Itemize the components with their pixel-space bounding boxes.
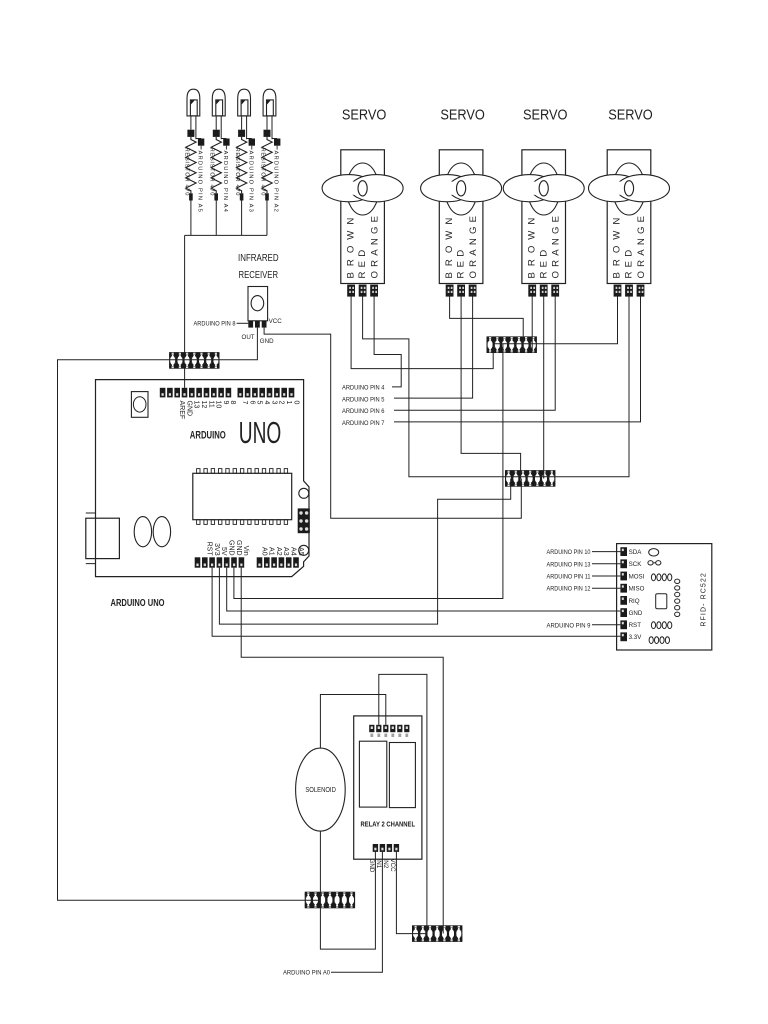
wire: pin8 label dash to receiver OUT [237, 322, 249, 324]
svg-text:SERVO: SERVO [342, 106, 387, 123]
resistor R1 470 [186, 137, 196, 193]
resistor R3 bottom terminal [240, 193, 244, 200]
svg-text:3: 3 [270, 401, 277, 405]
svg-text:RST: RST [629, 622, 642, 629]
svg-text:RFID- RC522: RFID- RC522 [700, 572, 707, 627]
RFID pin RIQ [620, 596, 627, 605]
LED D3 anode leg [246, 116, 248, 139]
mounting hole top [299, 488, 309, 498]
svg-text:GND: GND [260, 338, 274, 345]
svg-text:SERVO: SERVO [523, 106, 568, 123]
servo M3 horn [528, 163, 560, 215]
wire: pin9 label to RFID RST [592, 624, 620, 626]
wire: Arduino Vin to connector J5 [241, 568, 443, 934]
Arduino top digital header (AREF..8) [160, 388, 231, 398]
node label ARDUINO PIN A4 [225, 146, 227, 150]
receiver pin VCC [262, 321, 267, 328]
wire: pin10 label to RFID SDA [592, 551, 620, 553]
svg-text:RESISTOR 470: RESISTOR 470 [209, 148, 215, 197]
svg-text:SOLENOID: SOLENOID [305, 787, 336, 794]
infrared receiver U2 body [248, 287, 268, 321]
relay bottom header [373, 844, 399, 852]
svg-text:OUT: OUT [242, 334, 255, 341]
Arduino power header [195, 557, 245, 567]
svg-text:11: 11 [207, 401, 214, 408]
receiver pin OUT [248, 321, 253, 328]
svg-text:ARDUINO PIN A4: ARDUINO PIN A4 [222, 151, 228, 214]
servo M3 connector pins [528, 285, 559, 297]
svg-text:4: 4 [263, 401, 270, 405]
resistor R3 470 [236, 137, 246, 193]
servo M1 body [341, 150, 385, 284]
svg-text:ARDUINO PIN 9: ARDUINO PIN 9 [547, 622, 591, 629]
svg-text:SERVO: SERVO [608, 106, 653, 123]
connector block J5 (relay power bus) [412, 925, 462, 942]
svg-text:ARDUINO PIN 4: ARDUINO PIN 4 [342, 385, 385, 392]
capacitor C2 [153, 517, 170, 547]
wire: servo M3 orange to ARDUINO PIN 6 [394, 297, 555, 411]
wire: servo M4 red to connector J3 [555, 297, 629, 477]
wire: servo M1 orange to ARDUINO PIN 4 [374, 297, 401, 387]
svg-text:RELAY 2 CHANNEL: RELAY 2 CHANNEL [361, 819, 416, 828]
svg-text:RIQ: RIQ [629, 598, 640, 605]
svg-text:GND: GND [185, 401, 192, 417]
wire: Arduino 3V3 to RFID 3.3V [212, 568, 620, 637]
node label ARDUINO PIN A3 [251, 146, 253, 150]
wire: solenoid top to relay NO terminal [320, 695, 385, 749]
connector block J4 (solenoid bus) [305, 892, 355, 909]
svg-text:RED: RED [456, 246, 467, 279]
svg-text:UNO: UNO [239, 415, 281, 450]
servo M4 connector pins [614, 285, 645, 297]
wire: servo M4 brown to connector J2 [493, 297, 617, 344]
wire: Arduino 5V to connector J3 [219, 479, 510, 625]
svg-text:12: 12 [200, 401, 207, 409]
svg-text:ORANGE: ORANGE [468, 212, 479, 279]
svg-text:MOSI: MOSI [629, 573, 645, 580]
wire: servo M2 orange to ARDUINO PIN 5 [394, 297, 473, 399]
svg-text:RESISTOR 470: RESISTOR 470 [259, 148, 265, 197]
node label ARDUINO PIN A2 [276, 146, 278, 150]
LED D2 anode leg [220, 116, 222, 139]
svg-text:A5: A5 [297, 547, 304, 556]
svg-text:ARDUINO PIN A0: ARDUINO PIN A0 [283, 970, 330, 977]
relay module K1 body [354, 716, 422, 859]
svg-text:RESISTOR 470: RESISTOR 470 [234, 148, 240, 197]
LED D4 anode leg [271, 116, 273, 139]
LED D2 cathode junction [213, 130, 220, 137]
RFID pin MISO [620, 584, 627, 593]
servo M4 horn [613, 163, 645, 215]
wire: solenoid bottom through connector J4 to relay GND [320, 831, 375, 949]
servo M3 body [522, 150, 566, 284]
svg-text:VCC: VCC [269, 318, 283, 325]
wire: Arduino GND to RFID GND [227, 568, 621, 611]
svg-text:ARDUINO PIN 8: ARDUINO PIN 8 [194, 321, 236, 328]
wire: LED ground bus [185, 201, 267, 236]
RFID pin SCK [620, 559, 627, 568]
Arduino analog header A0-A5 [257, 557, 299, 567]
svg-text:ARDUINO PIN A5: ARDUINO PIN A5 [197, 151, 203, 214]
relay top header [369, 725, 409, 737]
svg-text:MISO: MISO [629, 586, 645, 593]
IR LED D1 [187, 89, 200, 116]
RFID pin RST [620, 620, 627, 629]
svg-text:SCK: SCK [629, 561, 643, 568]
svg-text:2: 2 [278, 401, 285, 405]
RFID pin MOSI [620, 572, 627, 581]
servo M2 connector pins [446, 285, 477, 297]
LED D3 cathode leg [241, 116, 243, 130]
svg-text:SERVO: SERVO [440, 106, 485, 123]
resistor R2 bottom terminal [214, 193, 218, 200]
wire: receiver GND through connector J1 to connector J4 (ground run) [58, 328, 321, 901]
svg-text:RESISTOR 470: RESISTOR 470 [183, 148, 189, 197]
resistor R2 470 [211, 137, 221, 193]
svg-text:IN2: IN2 [382, 859, 389, 869]
node label ARDUINO PIN A5 [200, 146, 202, 150]
ATmega IC chip [193, 469, 292, 525]
servo M1 horn [346, 163, 378, 215]
wire: servo M3 red to connector J3 [543, 297, 545, 479]
svg-text:RED: RED [624, 246, 635, 279]
svg-text:AREF: AREF [178, 401, 185, 420]
capacitor C1 [134, 517, 151, 547]
svg-text:ARDUINO PIN 10: ARDUINO PIN 10 [547, 549, 591, 556]
wire: relay terminal to connector J5 [379, 674, 427, 933]
IR LED D2 [212, 89, 225, 116]
servo M4 body [607, 150, 651, 284]
IR LED D3 [238, 89, 251, 116]
svg-text:6: 6 [248, 401, 255, 405]
svg-text:GND: GND [368, 859, 375, 873]
svg-text:10: 10 [215, 401, 222, 409]
svg-text:SDA: SDA [629, 549, 643, 556]
LED D4 anode junction [274, 139, 280, 146]
resistor R4 470 [262, 137, 272, 193]
wire: pin13 label to RFID SCK [592, 563, 620, 565]
wire: servo M1 brown to connector J2 [351, 297, 493, 369]
connector block J3 (servo 5V bus) [505, 470, 555, 487]
LED D4 cathode leg [266, 116, 268, 130]
LED D2 cathode leg [215, 116, 217, 130]
LED D4 cathode junction [264, 130, 271, 137]
svg-text:ARDUINO PIN A2: ARDUINO PIN A2 [273, 151, 279, 214]
svg-text:ARDUINO PIN 13: ARDUINO PIN 13 [547, 561, 591, 568]
svg-text:A3: A3 [282, 547, 289, 556]
svg-text:A4: A4 [290, 547, 297, 556]
wire: pin11 label to RFID MOSI [592, 575, 620, 577]
LED D3 anode junction [249, 139, 255, 146]
LED D1 cathode junction [187, 130, 194, 137]
svg-text:Vin: Vin [242, 546, 249, 556]
Arduino UNO board U1 outline [96, 380, 310, 577]
svg-text:GND: GND [235, 540, 242, 556]
svg-text:ORANGE: ORANGE [370, 212, 381, 279]
svg-text:3V3: 3V3 [213, 543, 220, 556]
svg-text:7: 7 [241, 401, 248, 405]
svg-text:INFRARED: INFRARED [238, 253, 279, 264]
relay K1 left relay [359, 741, 386, 807]
RFID pin SDA [620, 547, 627, 556]
svg-text:ORANGE: ORANGE [636, 212, 647, 279]
svg-text:ARDUINO PIN 11: ARDUINO PIN 11 [547, 574, 591, 581]
svg-text:ARDUINO UNO: ARDUINO UNO [111, 597, 165, 609]
servo M1 connector pins [347, 285, 378, 297]
svg-text:13: 13 [193, 401, 200, 409]
LED D1 cathode leg [190, 116, 192, 130]
wire: Arduino GND to connector J2 (servo ground bus) [234, 344, 503, 599]
servo M2 body [439, 150, 483, 284]
svg-text:RED: RED [357, 246, 368, 279]
RFID pin 3.3V [620, 632, 627, 641]
svg-text:ARDUINO PIN 12: ARDUINO PIN 12 [547, 586, 591, 593]
svg-text:BROWN: BROWN [612, 212, 623, 279]
svg-text:BROWN: BROWN [444, 212, 455, 279]
relay K1 right relay [389, 743, 415, 808]
resistor R4 bottom terminal [265, 193, 269, 200]
svg-text:BROWN: BROWN [526, 212, 537, 279]
svg-text:9: 9 [222, 401, 229, 405]
wire: pin12 label to RFID MISO [592, 587, 620, 589]
servo M2 horn [445, 163, 477, 215]
RFID-RC522 module U3 body [617, 544, 712, 650]
resistor R1 bottom terminal [189, 193, 193, 200]
svg-text:BROWN: BROWN [345, 212, 356, 279]
receiver pin GND [255, 321, 260, 328]
LED D1 anode leg [195, 116, 197, 139]
wire: servo M4 orange to ARDUINO PIN 7 [394, 297, 641, 422]
svg-text:ARDUINO PIN 5: ARDUINO PIN 5 [342, 396, 385, 403]
svg-text:RED: RED [538, 246, 549, 279]
IR LED D4 [263, 89, 276, 116]
svg-text:IN1: IN1 [375, 859, 382, 869]
Arduino top digital header (7..0) [238, 388, 295, 398]
svg-text:ARDUINO PIN 7: ARDUINO PIN 7 [342, 420, 385, 427]
svg-text:5: 5 [256, 401, 263, 405]
svg-text:1: 1 [285, 401, 292, 405]
mounting hole bottom [299, 545, 309, 555]
wire: servo M1 red to connector J3 [363, 297, 555, 477]
solenoid L1 [296, 748, 346, 831]
svg-text:5V: 5V [220, 547, 227, 556]
connector block J2 (servo ground bus) [487, 336, 537, 353]
svg-text:A0: A0 [260, 547, 267, 556]
svg-text:GND: GND [228, 540, 235, 556]
svg-text:ARDUINO PIN 6: ARDUINO PIN 6 [342, 408, 385, 415]
wire: IR receiver VCC to connector J3 (5V bus) [264, 328, 521, 519]
wire: servo M2 brown to connector J2 [450, 297, 524, 352]
ICSP header [298, 508, 310, 533]
svg-text:ARDUINO: ARDUINO [190, 430, 226, 442]
LED D2 anode junction [223, 139, 229, 146]
svg-text:0: 0 [292, 401, 299, 405]
wire: relay VCC to connector J5 [396, 852, 427, 934]
RFID board details [648, 549, 680, 644]
svg-text:RST: RST [206, 542, 213, 557]
reset button [131, 392, 148, 418]
USB connector [86, 518, 120, 558]
LED D3 cathode junction [238, 130, 245, 137]
svg-text:VCC: VCC [389, 859, 396, 873]
svg-text:A1: A1 [268, 547, 275, 556]
svg-text:3.3V: 3.3V [629, 634, 643, 641]
wire: LED bus down to Arduino GND through connector J1 [184, 235, 186, 388]
RFID pin GND [620, 608, 627, 617]
svg-text:ORANGE: ORANGE [551, 212, 562, 279]
connector block J1 (IR ground bus) [169, 352, 219, 369]
svg-text:GND: GND [629, 610, 643, 617]
svg-text:8: 8 [229, 401, 236, 405]
LED D1 anode junction [198, 139, 204, 146]
wire: servo M3 brown to connector J2 [531, 297, 533, 352]
svg-text:RECEIVER: RECEIVER [239, 270, 279, 281]
wire: relay IN1 to ARDUINO PIN A0 [331, 852, 382, 972]
wire: servo M2 red to connector J3 [461, 297, 520, 479]
svg-text:ARDUINO PIN A3: ARDUINO PIN A3 [247, 151, 253, 214]
svg-text:A2: A2 [275, 547, 282, 556]
